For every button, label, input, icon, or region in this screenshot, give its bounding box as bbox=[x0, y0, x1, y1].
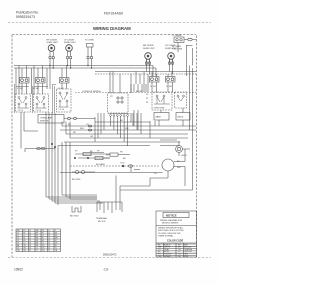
diagram top border bbox=[12, 34, 196, 36]
diagram right border bbox=[196, 36, 198, 258]
svg-text:L2 H2: L2 H2 bbox=[166, 86, 173, 88]
terminal labels row bbox=[17, 86, 173, 93]
svg-text:TERMINAL: TERMINAL bbox=[96, 217, 108, 220]
switch connector P5 bbox=[166, 77, 176, 83]
svg-text:WIRING DIAGRAM: WIRING DIAGRAM bbox=[93, 26, 131, 31]
selector terminal strip bbox=[109, 114, 130, 117]
svg-text:BROIL: BROIL bbox=[178, 117, 185, 119]
footer page number bbox=[103, 268, 109, 272]
svg-text:12: 12 bbox=[29, 250, 31, 252]
TOD dashed run bbox=[70, 165, 160, 167]
broil element box bbox=[176, 113, 190, 121]
svg-text:RD: RD bbox=[73, 132, 77, 134]
svg-text:WIRING SHOWN WITH ALL: WIRING SHOWN WITH ALL bbox=[158, 227, 184, 230]
footer left bbox=[14, 268, 23, 272]
thermostat box bbox=[152, 92, 172, 110]
svg-text:FEF314AS0: FEF314AS0 bbox=[104, 12, 123, 16]
bake element box bbox=[0, 0, 1, 1]
wire drops from surface units bbox=[50, 59, 92, 68]
wire drops bus to connectors bbox=[22, 66, 67, 78]
wire left lamp drop bbox=[21, 112, 38, 149]
motor circle bbox=[162, 159, 174, 171]
svg-text:L1 H1: L1 H1 bbox=[58, 88, 65, 90]
top fold dashed line bbox=[8, 22, 211, 24]
svg-text:P6: P6 bbox=[146, 102, 148, 104]
warmer label bbox=[85, 40, 94, 42]
wire bundle center bbox=[95, 121, 150, 123]
svg-text:SURF UNIT: SURF UNIT bbox=[64, 42, 76, 44]
clock component bbox=[174, 37, 184, 43]
svg-text:P-TIMER: P-TIMER bbox=[173, 35, 182, 37]
svg-text:L1 H1: L1 H1 bbox=[17, 88, 24, 90]
wires right column top bbox=[187, 45, 193, 190]
svg-text:MODELS SERIES: MODELS SERIES bbox=[162, 223, 179, 225]
svg-text:LT: LT bbox=[36, 250, 38, 252]
svg-text:BK GND: BK GND bbox=[70, 216, 79, 218]
mid components cluster bbox=[75, 154, 110, 158]
svg-text:P4: P4 bbox=[146, 94, 148, 96]
ground run left bbox=[25, 148, 55, 150]
svg-text:TOD: TOD bbox=[120, 163, 125, 165]
svg-text:19902: 19902 bbox=[14, 268, 23, 272]
surface unit LF bbox=[66, 45, 73, 52]
svg-text:OR: OR bbox=[90, 136, 94, 138]
svg-text:-13-: -13- bbox=[103, 268, 109, 272]
aux box right bbox=[175, 92, 187, 108]
svg-text:LIGHT: LIGHT bbox=[181, 155, 188, 157]
svg-text:P-40 CONN: P-40 CONN bbox=[172, 49, 183, 51]
svg-text:SURF UNIT: SURF UNIT bbox=[47, 42, 59, 44]
svg-text:L1 H1: L1 H1 bbox=[150, 86, 157, 88]
svg-text:SWITCHES OFF DOOR SW: SWITCHES OFF DOOR SW bbox=[158, 230, 184, 232]
legend outer box bbox=[156, 211, 197, 257]
lamp sw terminals bbox=[68, 117, 71, 120]
surface unit RR bbox=[145, 53, 152, 60]
svg-text:SWITCH: SWITCH bbox=[40, 121, 49, 123]
svg-text:SURF UNIT: SURF UNIT bbox=[143, 48, 155, 50]
svg-text:5995319473: 5995319473 bbox=[16, 15, 35, 19]
bus junction dots bbox=[49, 65, 92, 69]
surface unit LF label bbox=[64, 40, 76, 45]
svg-text:LF 1250W: LF 1250W bbox=[64, 40, 75, 42]
part number above bottom line bbox=[103, 254, 117, 257]
wire lower bundle bbox=[58, 145, 150, 147]
bottom fold dashed line bbox=[8, 257, 211, 259]
svg-text:WIRING DIAGRAM FOR: WIRING DIAGRAM FOR bbox=[160, 219, 183, 222]
inline connectors bundle left bbox=[88, 125, 91, 127]
oven lamp switch box bbox=[38, 115, 64, 124]
surface unit RF label bbox=[47, 40, 59, 45]
svg-text:1 2 3 4: 1 2 3 4 bbox=[59, 109, 65, 111]
plug P11 bbox=[72, 206, 81, 212]
wire drops selector to bundle bbox=[111, 116, 128, 146]
svg-text:NOTICE: NOTICE bbox=[166, 214, 177, 218]
svg-text:COLOR CODE: COLOR CODE bbox=[167, 240, 184, 243]
svg-text:Publication No.: Publication No. bbox=[16, 11, 39, 15]
switch connector P4 bbox=[150, 77, 160, 83]
infinite switch box 3 bbox=[57, 89, 72, 112]
svg-text:BAKE: BAKE bbox=[156, 116, 162, 119]
surface unit LR bbox=[168, 53, 175, 60]
surface unit LR label bbox=[165, 45, 177, 50]
title WIRING DIAGRAM bbox=[93, 26, 131, 31]
svg-text:WH: WH bbox=[106, 155, 110, 157]
wire: top buses bbox=[14, 66, 153, 77]
wire verticals under connectors bbox=[22, 83, 67, 94]
connector P8 bbox=[103, 157, 110, 159]
svg-text:CLOSED OVEN SW OFF: CLOSED OVEN SW OFF bbox=[158, 233, 182, 235]
harness boundary dashed bbox=[75, 92, 196, 94]
junction dots left bundle bbox=[51, 143, 52, 144]
svg-text:BK GND: BK GND bbox=[72, 179, 81, 181]
switch connector P2 bbox=[36, 78, 46, 84]
svg-text:P-CONN: P-CONN bbox=[85, 40, 94, 42]
surface unit RR label bbox=[143, 45, 155, 50]
svg-text:OVEN TSTAT: OVEN TSTAT bbox=[154, 107, 166, 110]
oven light double circle bbox=[176, 146, 183, 153]
header model number bbox=[104, 12, 123, 16]
svg-text:BK DASH: BK DASH bbox=[96, 163, 105, 166]
svg-text:WH: WH bbox=[80, 128, 84, 130]
bottom-left chart table bbox=[16, 229, 61, 252]
switch connector P1 bbox=[20, 78, 30, 84]
svg-text:BLOCK: BLOCK bbox=[98, 221, 106, 223]
legend title box bbox=[163, 213, 189, 218]
svg-text:OVEN LAMP: OVEN LAMP bbox=[40, 117, 53, 120]
svg-text:P5: P5 bbox=[146, 98, 148, 100]
fuse symbol bbox=[75, 170, 78, 173]
switch connector P3 bbox=[60, 78, 70, 84]
svg-text:5995319473: 5995319473 bbox=[103, 254, 117, 257]
clock label bbox=[173, 35, 182, 37]
svg-text:1 2 3 4: 1 2 3 4 bbox=[36, 110, 42, 112]
wire verticals center column bbox=[131, 84, 146, 93]
svg-text:1 2 3 4: 1 2 3 4 bbox=[18, 110, 24, 112]
svg-text:RF 2350W: RF 2350W bbox=[47, 40, 58, 42]
svg-text:12: 12 bbox=[48, 250, 50, 252]
svg-text:TIMER NORMAL: TIMER NORMAL bbox=[158, 235, 174, 238]
terminal block bbox=[97, 202, 122, 212]
warmer lamp bbox=[87, 44, 94, 48]
header publication text bbox=[16, 11, 39, 20]
surface unit RF bbox=[48, 45, 55, 52]
left vertical bundle bbox=[46, 112, 58, 205]
infinite switch box 1 bbox=[16, 94, 31, 112]
infinite switch box 2 bbox=[34, 94, 49, 112]
converging wires to terminal block bbox=[46, 197, 103, 203]
svg-text:RR 2350W: RR 2350W bbox=[143, 45, 155, 47]
svg-text:BK TIMER: BK TIMER bbox=[172, 46, 182, 48]
diagram left border bbox=[11, 35, 13, 257]
svg-text:CONSOLE WIRING: CONSOLE WIRING bbox=[82, 91, 101, 93]
selector switch box bbox=[108, 93, 129, 113]
svg-text:WH: WH bbox=[177, 167, 181, 169]
